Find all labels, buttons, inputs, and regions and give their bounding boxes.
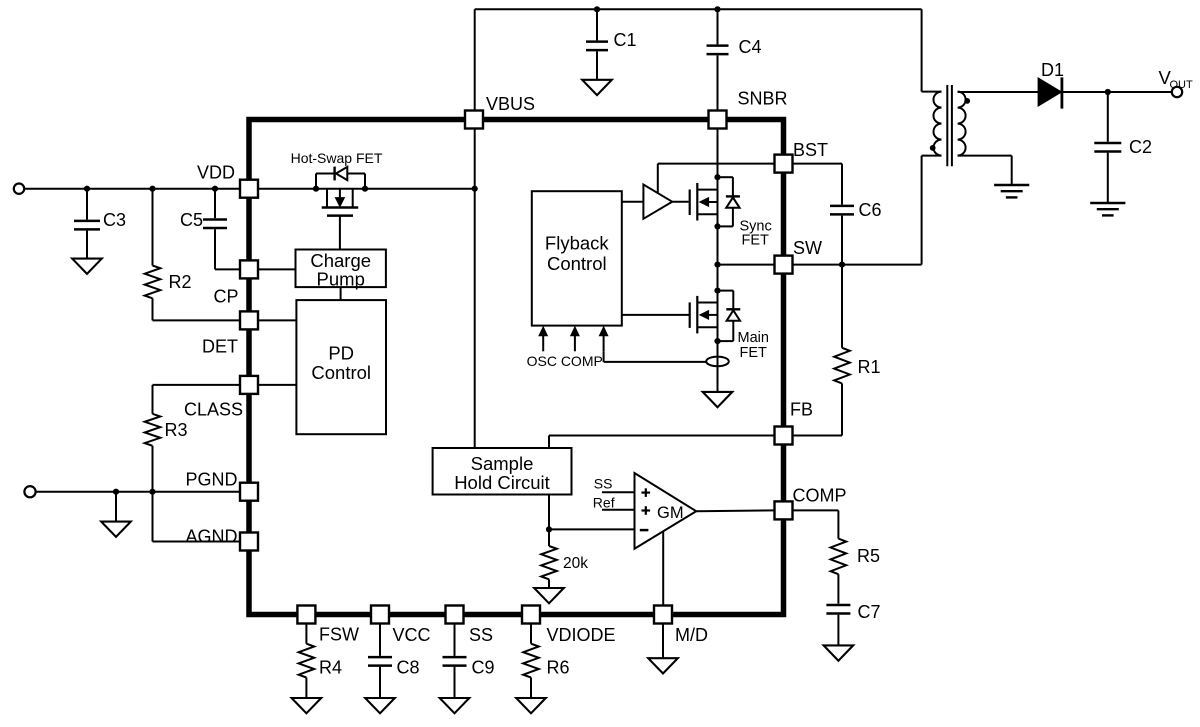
svg-text:FB: FB xyxy=(790,400,813,420)
svg-text:C1: C1 xyxy=(614,30,637,50)
svg-text:R5: R5 xyxy=(857,546,880,566)
svg-text:20k: 20k xyxy=(563,555,588,572)
svg-text:GM: GM xyxy=(657,504,684,522)
svg-text:FET: FET xyxy=(742,233,770,249)
svg-text:Flyback: Flyback xyxy=(545,233,609,254)
svg-text:FET: FET xyxy=(740,345,768,361)
svg-text:C2: C2 xyxy=(1129,137,1152,157)
svg-text:C3: C3 xyxy=(103,210,126,230)
svg-text:PGND: PGND xyxy=(185,470,237,490)
svg-text:R2: R2 xyxy=(169,272,192,292)
svg-text:C8: C8 xyxy=(397,658,420,678)
svg-text:PD: PD xyxy=(328,343,354,364)
svg-text:SS: SS xyxy=(469,625,493,645)
svg-text:DET: DET xyxy=(202,337,238,357)
svg-text:SS: SS xyxy=(594,476,613,492)
svg-text:M/D: M/D xyxy=(675,625,708,645)
svg-text:C6: C6 xyxy=(859,200,882,220)
svg-text:FSW: FSW xyxy=(319,625,359,645)
svg-text:C4: C4 xyxy=(739,37,762,57)
svg-text:VDD: VDD xyxy=(197,163,235,183)
svg-text:Ref: Ref xyxy=(593,495,615,511)
svg-text:Pump: Pump xyxy=(317,269,365,290)
svg-text:R3: R3 xyxy=(165,420,188,440)
svg-text:Sample: Sample xyxy=(471,453,534,474)
svg-text:Hold Circuit: Hold Circuit xyxy=(454,472,550,493)
svg-text:CP: CP xyxy=(213,287,238,307)
svg-text:SNBR: SNBR xyxy=(738,89,788,109)
svg-text:VBUS: VBUS xyxy=(486,94,535,114)
svg-text:Main: Main xyxy=(738,330,769,346)
svg-text:CLASS: CLASS xyxy=(184,400,243,420)
svg-text:AGND: AGND xyxy=(185,527,237,547)
svg-text:C9: C9 xyxy=(472,658,495,678)
svg-text:R6: R6 xyxy=(547,658,570,678)
svg-text:Control: Control xyxy=(311,362,371,383)
svg-text:VCC: VCC xyxy=(393,625,431,645)
svg-text:C5: C5 xyxy=(180,210,203,230)
svg-text:Hot-Swap FET: Hot-Swap FET xyxy=(291,150,383,166)
svg-text:Control: Control xyxy=(547,253,607,274)
svg-text:D1: D1 xyxy=(1041,60,1064,80)
svg-text:VDIODE: VDIODE xyxy=(547,625,616,645)
svg-text:OSC COMP: OSC COMP xyxy=(527,353,603,369)
svg-text:C7: C7 xyxy=(858,602,881,622)
svg-text:OUT: OUT xyxy=(1170,79,1194,91)
svg-text:BST: BST xyxy=(793,140,828,160)
svg-text:R1: R1 xyxy=(858,357,881,377)
svg-text:R4: R4 xyxy=(319,658,342,678)
svg-text:SW: SW xyxy=(793,238,822,258)
svg-text:COMP: COMP xyxy=(793,486,847,506)
